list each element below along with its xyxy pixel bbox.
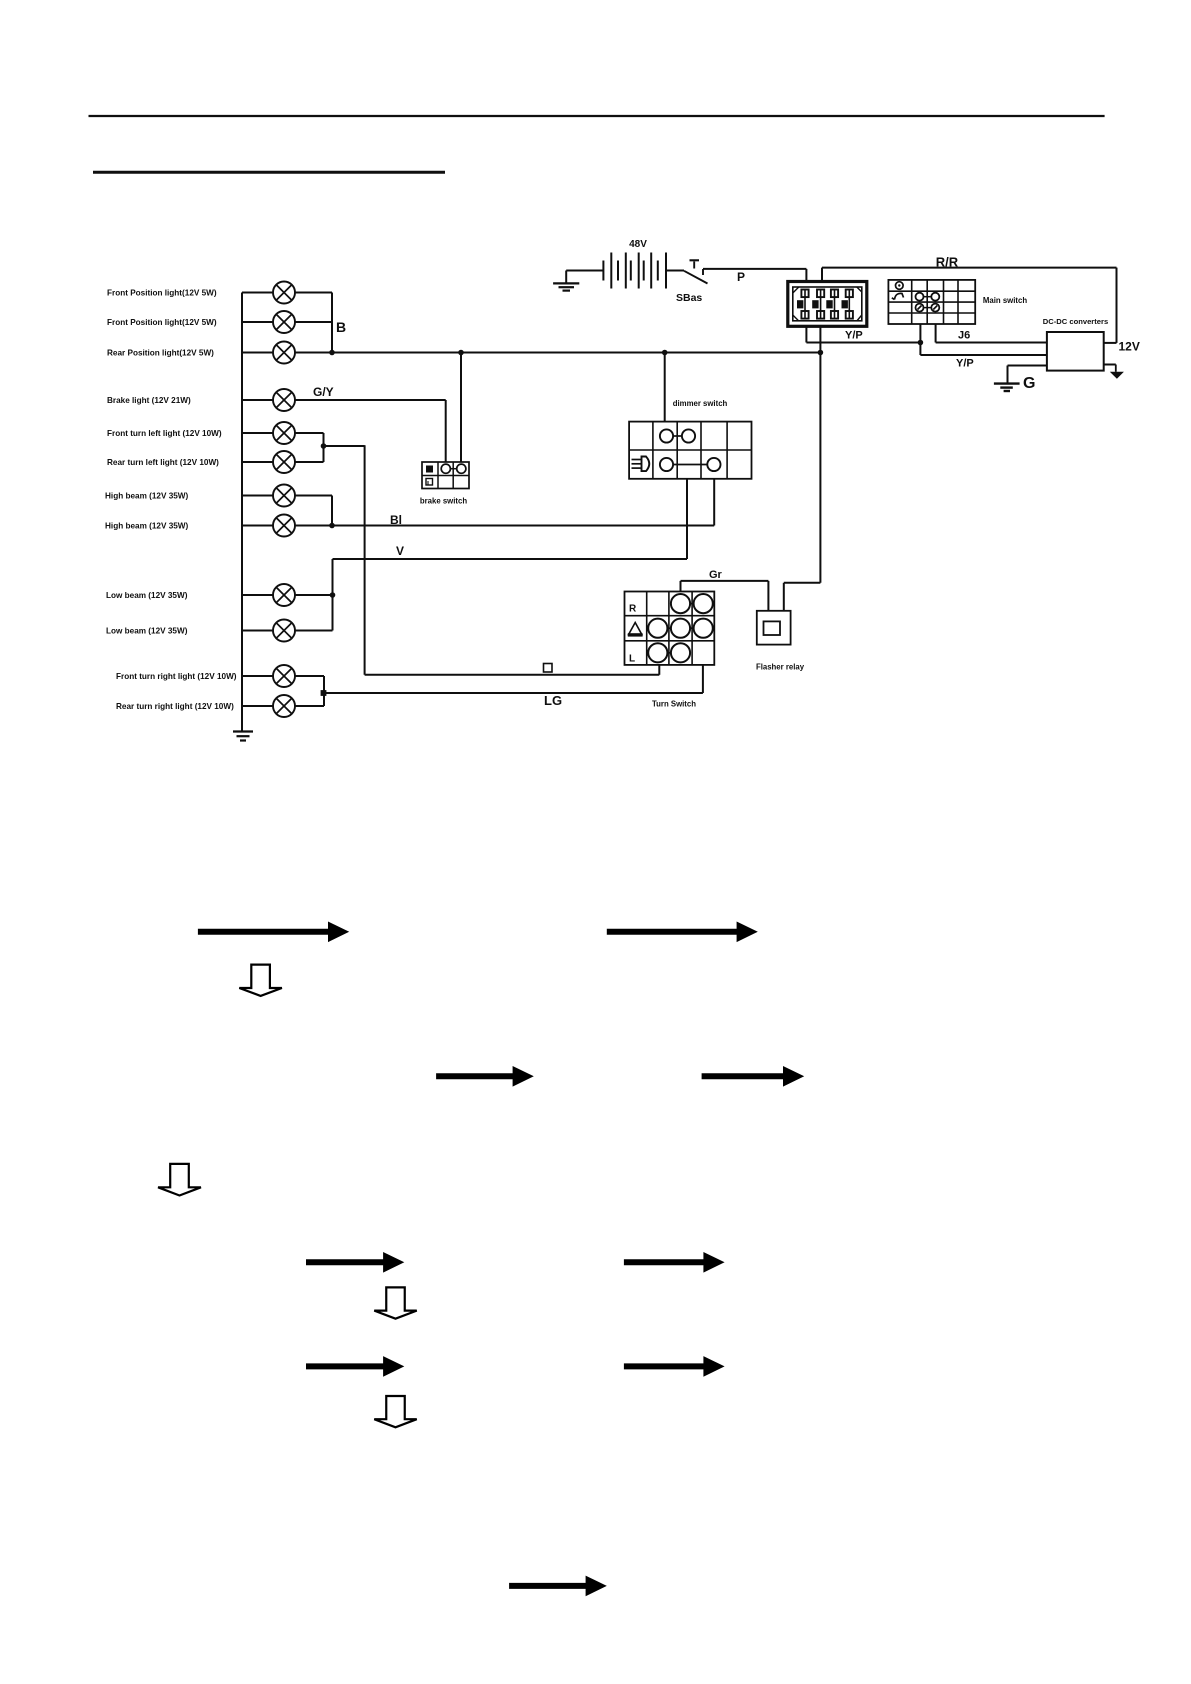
wire: DC-DC to ground G [1008, 365, 1047, 367]
hollow down arrow 4 [374, 1396, 417, 1427]
svg-text:High beam (12V 35W): High beam (12V 35W) [105, 522, 189, 531]
wire: turn-left branch to turn switch (LG) [324, 445, 365, 447]
svg-text:J6: J6 [958, 330, 970, 342]
svg-text:L: L [629, 654, 635, 665]
svg-text:brake switch: brake switch [420, 497, 467, 506]
flow arrow 4 [702, 1066, 805, 1087]
node: junction B bus / dimmer switch branch [662, 350, 668, 356]
wire: turn switch bottom pin to LG [658, 665, 660, 675]
main switch component [888, 280, 975, 324]
wire Y/P: connector to main-switch node [806, 342, 920, 344]
wire: low beam join vertical [332, 559, 334, 631]
node: junction low beams [330, 592, 336, 598]
DC-DC converter component [1047, 332, 1104, 371]
svg-text:Low beam (12V 35W): Low beam (12V 35W) [106, 627, 188, 636]
lamp front turn left light [242, 422, 324, 444]
svg-text:Brake light (12V 21W): Brake light (12V 21W) [107, 396, 191, 405]
svg-text:High beam (12V 35W): High beam (12V 35W) [105, 492, 189, 501]
wire Y/P lower: to DC-DC [920, 354, 1047, 356]
wire: position lights join vertical [331, 293, 333, 353]
wire P: switch to connector [703, 268, 806, 270]
flow arrow 9 [509, 1576, 607, 1597]
lamp high beam 2 [242, 515, 714, 537]
lamp front turn right light [242, 665, 324, 687]
lamp low beam 2 [242, 620, 333, 642]
ground arrow (chassis, solid) [1110, 372, 1124, 379]
svg-text:Rear Position light(12V 5W): Rear Position light(12V 5W) [107, 349, 214, 358]
wire: battery to switch SB [666, 270, 684, 272]
svg-text:Gr: Gr [709, 569, 723, 581]
flasher relay component [757, 611, 791, 645]
svg-text:B: B [336, 319, 346, 335]
ground: lamp bus ground [233, 732, 253, 741]
flow arrow 5 [306, 1252, 404, 1273]
wire: B bus branch down to brake switch [460, 353, 462, 463]
svg-text:Main switch: Main switch [983, 296, 1027, 305]
svg-text:12V: 12V [1119, 340, 1140, 354]
svg-text:Rear turn left light (12V 10W): Rear turn left light (12V 10W) [107, 458, 219, 467]
wire J6: main switch pin2 to DC-DC [935, 324, 937, 343]
node: junction B bus / flasher branch [818, 350, 824, 356]
ground G symbol [994, 384, 1020, 391]
wire: turn-right branch to turn switch [324, 692, 703, 694]
hollow down arrow 1 [239, 965, 282, 996]
wire: connector pin2 down to B bus [819, 326, 821, 352]
svg-text:LG: LG [544, 693, 562, 708]
wire: DC-DC to output ground arrow [1104, 364, 1116, 366]
node: junction turn-right lamps (square) [321, 690, 327, 696]
svg-text:Front Position light(12V 5W): Front Position light(12V 5W) [107, 318, 217, 327]
node: Y/P junction under main switch [918, 340, 924, 346]
node: junction turn-left lamps [321, 443, 327, 449]
battery 48V [603, 253, 666, 289]
svg-text:48V: 48V [629, 239, 647, 250]
wire G/Y brake light to brake switch [445, 400, 447, 462]
lamp front position light 2 [242, 311, 332, 333]
brake switch component [422, 462, 469, 489]
connector square on LG wire [544, 664, 553, 673]
svg-text:G: G [1023, 375, 1035, 392]
dimmer switch component [629, 422, 751, 479]
hollow down arrow 3 [374, 1287, 417, 1318]
wire Gr: turn switch to flasher relay [680, 581, 682, 592]
svg-text:dimmer switch: dimmer switch [673, 399, 728, 408]
lamp brake light [242, 389, 446, 411]
lamp rear turn left light [242, 451, 324, 473]
wire: connector pin1 to Y/P [805, 326, 807, 342]
switch SB (main fuse/breaker) [684, 260, 708, 283]
lamp rear turn right light [242, 695, 324, 717]
svg-text:SBas: SBas [676, 292, 702, 304]
svg-text:Front turn right light (12V 10: Front turn right light (12V 10W) [116, 672, 237, 681]
wire: high beam join vertical [331, 496, 333, 526]
svg-text:Y/P: Y/P [845, 330, 863, 342]
lamp low beam 1 [242, 584, 333, 606]
svg-text:DC-DC converters: DC-DC converters [1043, 317, 1108, 326]
node: junction high beams [329, 523, 335, 529]
node: junction B bus / brake switch branch [458, 350, 464, 356]
svg-text:Bl: Bl [390, 513, 402, 527]
top rule [89, 115, 1105, 117]
flow arrow 8 [624, 1356, 725, 1377]
svg-text:Rear turn right light (12V 10W: Rear turn right light (12V 10W) [116, 702, 234, 711]
node: junction position lights on B bus [329, 350, 335, 356]
svg-text:Y/P: Y/P [956, 358, 974, 370]
lamp rear position light [242, 342, 820, 364]
lamp front position light 1 [242, 282, 332, 304]
svg-text:R: R [629, 604, 637, 615]
connector 4-pin (ignition coupler) [788, 282, 867, 327]
wire R/R: connector to DC-DC converter [821, 268, 823, 282]
wire: B branch down to flasher relay [819, 353, 821, 583]
wire Bl: high beam to dimmer switch [713, 479, 715, 526]
wire: main switch pin1 to Y/P node [919, 324, 921, 355]
svg-text:Low beam (12V 35W): Low beam (12V 35W) [106, 591, 188, 600]
wire: B bus branch down to dimmer switch [664, 353, 666, 422]
flow arrow 3 [436, 1066, 534, 1087]
wire: ground to battery [566, 270, 603, 272]
svg-text:P: P [737, 270, 745, 284]
wire: turn-right lamps vertical [323, 676, 325, 706]
flow arrow 6 [624, 1252, 725, 1273]
svg-text:G/Y: G/Y [313, 385, 334, 399]
wire V: low beams to dimmer switch [333, 558, 688, 560]
title underline [93, 171, 445, 174]
left lamp bus wire [241, 293, 243, 732]
svg-text:V: V [396, 544, 404, 558]
hollow down arrow 2 [158, 1164, 201, 1196]
flow arrow 2 [607, 922, 758, 943]
svg-text:Turn Switch: Turn Switch [652, 700, 696, 709]
svg-text:R/R: R/R [936, 255, 959, 270]
svg-text:Front turn left light (12V 10W: Front turn left light (12V 10W) [107, 429, 222, 438]
flow arrow 7 [306, 1356, 404, 1377]
turn switch component [625, 592, 715, 665]
ground: battery ground [553, 271, 579, 291]
svg-text:Front Position light(12V 5W): Front Position light(12V 5W) [107, 289, 217, 298]
lamp high beam 1 [242, 485, 332, 507]
svg-text:Flasher relay: Flasher relay [756, 663, 805, 672]
wire: turn-left lamps vertical [323, 433, 325, 462]
flow arrow 1 [198, 922, 349, 943]
